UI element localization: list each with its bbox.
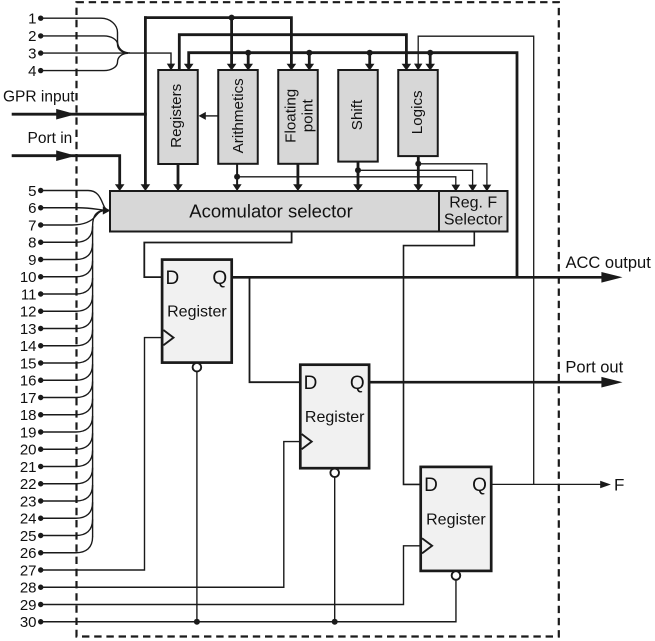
junction dot Shift output bbox=[355, 167, 361, 173]
arrowhead GPR trunk into Acomulator selector bbox=[141, 184, 151, 191]
node 16 terminal dot bbox=[38, 378, 43, 383]
wire pin10 to bus bbox=[41, 261, 93, 277]
svg-text:Registers: Registers bbox=[168, 83, 185, 148]
svg-text:10: 10 bbox=[20, 269, 37, 286]
svg-text:Port out: Port out bbox=[565, 359, 623, 377]
arrowhead into Registers right side bbox=[199, 112, 206, 120]
block Floating point bbox=[278, 70, 318, 164]
wire Q1 ACC output line bbox=[232, 276, 602, 279]
wire pin4 to bus bbox=[41, 53, 128, 70]
node 11 terminal dot bbox=[38, 291, 43, 296]
node 9 terminal dot bbox=[38, 257, 43, 262]
svg-text:27: 27 bbox=[20, 562, 37, 579]
junction dot Arithmetics output bbox=[234, 174, 240, 180]
node 27 terminal dot bbox=[38, 567, 43, 572]
node 5 terminal dot bbox=[38, 188, 43, 193]
wire Q3 to F bbox=[491, 483, 601, 485]
node 4 terminal dot bbox=[38, 68, 43, 73]
Port in arrow wire bbox=[12, 154, 62, 157]
node 21 terminal dot bbox=[38, 464, 43, 469]
junction dot wireA/Arithmetics bbox=[229, 15, 235, 21]
svg-text:Logics: Logics bbox=[409, 90, 426, 134]
wire pin19 to bus bbox=[41, 416, 93, 432]
node 23 terminal dot bbox=[38, 498, 43, 503]
node 2 terminal dot bbox=[38, 33, 43, 38]
svg-text:Register: Register bbox=[167, 304, 227, 321]
wire pin30 reset line bbox=[41, 580, 456, 622]
wire Arithmetics output to selector bbox=[236, 164, 238, 185]
node 25 terminal dot bbox=[38, 533, 43, 538]
node 12 terminal dot bbox=[38, 309, 43, 314]
wire pin3 merged bus to Registers input bbox=[41, 53, 171, 64]
svg-text:20: 20 bbox=[20, 442, 37, 459]
wire Acomulator selector output to Register1 D bbox=[144, 232, 291, 278]
svg-text:24: 24 bbox=[20, 511, 37, 528]
dashed border frame bbox=[77, 2, 559, 636]
arrowhead into Logics input3 bbox=[425, 64, 435, 71]
svg-text:3: 3 bbox=[28, 45, 36, 62]
wire Logics branch to Reg F selector bbox=[418, 164, 487, 186]
svg-text:25: 25 bbox=[20, 528, 37, 545]
node 14 terminal dot bbox=[38, 343, 43, 348]
svg-text:Arithmetics: Arithmetics bbox=[230, 78, 247, 154]
wire pin13 to bus bbox=[41, 313, 93, 329]
wire Arithmetics to Registers side arrow bbox=[203, 115, 218, 117]
node 1 terminal dot bbox=[38, 16, 43, 21]
svg-text:Floating: Floating bbox=[283, 89, 300, 143]
wire drop to Arithmetics input2 bbox=[247, 53, 250, 64]
junction dot wire3/Logics bbox=[427, 50, 433, 56]
block Shift bbox=[338, 70, 378, 162]
wire Arithmetics branch to Reg F selector bbox=[237, 177, 456, 186]
wire pin9 to bus bbox=[41, 244, 93, 260]
arrowhead bus1-4 into Registers bbox=[167, 64, 175, 71]
node 30 terminal dot bbox=[38, 619, 43, 624]
node 28 terminal dot bbox=[38, 585, 43, 590]
wire pin17 to bus bbox=[41, 382, 93, 398]
svg-text:Q: Q bbox=[350, 373, 365, 394]
wire pin18 to bus bbox=[41, 399, 93, 415]
clock triangle U2 bbox=[302, 434, 312, 449]
node 10 terminal dot bbox=[38, 274, 43, 279]
svg-text:Selector: Selector bbox=[444, 212, 503, 229]
svg-text:22: 22 bbox=[20, 476, 37, 493]
wire pin1 to bus bbox=[41, 18, 130, 53]
arrowhead Port in into Acomulator selector bbox=[115, 184, 125, 191]
register flip-flop U1 bbox=[162, 260, 232, 363]
svg-text:Shift: Shift bbox=[349, 99, 366, 130]
arrowhead into Shift input bbox=[365, 64, 375, 71]
svg-text:7: 7 bbox=[28, 217, 36, 234]
block Reg. F Selector U-REGF bbox=[439, 191, 508, 232]
junction dot wire3/Arithmetics bbox=[245, 50, 251, 56]
svg-text:19: 19 bbox=[20, 424, 37, 441]
wire pin6 to bus bbox=[41, 208, 104, 210]
svg-text:17: 17 bbox=[20, 390, 37, 407]
svg-text:Reg. F: Reg. F bbox=[449, 195, 497, 212]
wire pin22 to bus bbox=[41, 468, 93, 484]
svg-text:GPR input: GPR input bbox=[3, 89, 75, 106]
svg-text:D: D bbox=[424, 475, 438, 496]
svg-text:18: 18 bbox=[20, 407, 37, 424]
node 8 terminal dot bbox=[38, 240, 43, 245]
wire Shift branch to Reg F selector bbox=[358, 170, 473, 186]
node 15 terminal dot bbox=[38, 360, 43, 365]
wire pin24 to bus bbox=[41, 502, 93, 518]
wire Floating point output to selector bbox=[296, 164, 299, 185]
svg-text:26: 26 bbox=[20, 545, 37, 562]
wire Shift output to selector bbox=[357, 162, 360, 185]
svg-text:29: 29 bbox=[20, 597, 37, 614]
node 13 terminal dot bbox=[38, 326, 43, 331]
arrowhead wire3 into Registers bbox=[184, 64, 194, 71]
wire pin29 to Register3 clock bbox=[41, 546, 420, 605]
wire Q1 branch to Register2 D bbox=[250, 277, 300, 382]
clock triangle U1 bbox=[163, 330, 173, 345]
bus 5-26 vertical bbox=[93, 211, 105, 537]
wire drop to Floating point input2 bbox=[308, 53, 311, 64]
svg-text:Q: Q bbox=[472, 475, 487, 496]
junction dot reset/reg1 bbox=[194, 619, 200, 625]
svg-text:Port in: Port in bbox=[28, 130, 73, 147]
node 20 terminal dot bbox=[38, 447, 43, 452]
arrowhead into Floating point input2 bbox=[305, 64, 315, 71]
svg-text:D: D bbox=[304, 373, 318, 394]
svg-text:23: 23 bbox=[20, 493, 37, 510]
node 22 terminal dot bbox=[38, 481, 43, 486]
arrowhead wire2 into Logics bbox=[402, 64, 412, 71]
svg-text:28: 28 bbox=[20, 580, 37, 597]
wire pin28 to Register2 clock bbox=[41, 442, 299, 588]
node 24 terminal dot bbox=[38, 516, 43, 521]
wire pin16 to bus bbox=[41, 364, 93, 380]
wire Logics output to selector bbox=[417, 156, 420, 184]
node 3 terminal dot bbox=[38, 50, 43, 55]
svg-text:15: 15 bbox=[20, 355, 37, 372]
wire Q2 Port out line bbox=[369, 381, 602, 384]
svg-text:2: 2 bbox=[28, 28, 36, 45]
wire pin8 to bus bbox=[41, 226, 93, 242]
svg-text:1: 1 bbox=[28, 11, 36, 28]
reset bubble U1 bbox=[193, 363, 202, 372]
wire bus A top (GPR distribution) bbox=[144, 18, 291, 64]
wire pin27 to Register1 clock bbox=[41, 338, 161, 570]
GPR input arrow wire bbox=[12, 113, 62, 116]
arrowhead F feedback into Logics bbox=[414, 64, 422, 71]
arrowhead into Arithmetics input2 bbox=[243, 64, 253, 71]
clock triangle U3 bbox=[422, 538, 432, 553]
wire pin25 to bus bbox=[41, 520, 93, 536]
junction dot Logics output bbox=[415, 161, 421, 167]
svg-text:6: 6 bbox=[28, 200, 36, 217]
Port out arrowhead bbox=[601, 377, 622, 388]
register flip-flop U3 bbox=[421, 467, 492, 571]
wire ACC feedback (wire3) across tops bbox=[189, 53, 517, 278]
ACC output arrowhead bbox=[601, 272, 622, 283]
arrowhead bus into Acomulator selector bbox=[103, 206, 111, 214]
wire pin15 to bus bbox=[41, 347, 93, 363]
wire pin12 to bus bbox=[41, 295, 93, 311]
node 19 terminal dot bbox=[38, 429, 43, 434]
svg-text:Register: Register bbox=[305, 409, 365, 426]
wire drop to Logics input3 bbox=[429, 53, 432, 64]
svg-text:13: 13 bbox=[20, 321, 37, 338]
node 26 terminal dot bbox=[38, 550, 43, 555]
svg-text:12: 12 bbox=[20, 304, 37, 321]
arrowhead into Floating point input1 bbox=[287, 64, 297, 71]
wire drop to Arithmetics input1 bbox=[230, 18, 233, 64]
Port in arrowhead bbox=[56, 150, 75, 161]
block Arithmetics bbox=[218, 70, 258, 164]
wire Reg F selector output to Register3 D bbox=[404, 232, 475, 485]
svg-text:F: F bbox=[614, 476, 624, 495]
svg-text:11: 11 bbox=[21, 286, 37, 303]
wire drop to Shift input bbox=[368, 53, 371, 64]
node 6 terminal dot bbox=[38, 205, 43, 210]
wire pin21 to bus bbox=[41, 451, 93, 467]
node 18 terminal dot bbox=[38, 412, 43, 417]
svg-text:Q: Q bbox=[212, 268, 227, 289]
wire pin20 to bus bbox=[41, 433, 93, 449]
svg-text:30: 30 bbox=[20, 614, 37, 631]
block Registers bbox=[158, 70, 198, 164]
junction dot wire3/Floating point bbox=[306, 50, 312, 56]
wire pin7 to bus bbox=[41, 211, 105, 226]
wire reset to Register1 bubble bbox=[196, 372, 198, 622]
register flip-flop U2 bbox=[300, 365, 369, 469]
node 29 terminal dot bbox=[38, 602, 43, 607]
svg-text:Register: Register bbox=[426, 511, 486, 528]
GPR input arrowhead bbox=[56, 109, 75, 120]
wire pin2 to bus bbox=[41, 36, 128, 53]
wire pin23 to bus bbox=[41, 485, 93, 501]
svg-text:D: D bbox=[166, 268, 180, 289]
svg-text:21: 21 bbox=[20, 459, 37, 476]
node 7 terminal dot bbox=[38, 222, 43, 227]
svg-text:16: 16 bbox=[20, 373, 37, 390]
svg-text:point: point bbox=[300, 99, 317, 133]
junction dot wire3/Shift bbox=[367, 50, 373, 56]
reset bubble U3 bbox=[452, 571, 461, 580]
node 17 terminal dot bbox=[38, 395, 43, 400]
svg-text:8: 8 bbox=[28, 235, 36, 252]
arrowhead into Arithmetics input1 bbox=[227, 64, 237, 71]
reset bubble U2 bbox=[330, 469, 339, 478]
block Logics bbox=[398, 70, 438, 156]
svg-text:4: 4 bbox=[28, 63, 36, 80]
svg-text:9: 9 bbox=[28, 252, 36, 269]
wire reset to Register2 bubble bbox=[334, 477, 336, 622]
svg-text:14: 14 bbox=[20, 338, 37, 355]
wire pin5 to bus bbox=[41, 191, 109, 211]
wire pin14 to bus bbox=[41, 330, 93, 346]
svg-text:ACC output: ACC output bbox=[566, 254, 652, 272]
wire GPR vertical trunk bbox=[144, 16, 147, 184]
wire Registers top feed (wire2) to Logics bbox=[179, 35, 406, 71]
svg-text:Acomulator selector: Acomulator selector bbox=[189, 201, 352, 222]
svg-text:5: 5 bbox=[28, 183, 36, 200]
junction dot reset/reg2 bbox=[332, 619, 338, 625]
wire F feedback thin into Logics bbox=[418, 36, 534, 484]
wire pin11 to bus bbox=[41, 278, 93, 294]
wire Registers output to selector bbox=[177, 163, 180, 184]
wire pin26 to bus bbox=[41, 537, 93, 553]
block Acomulator selector U-ACC bbox=[110, 191, 439, 232]
F arrowhead bbox=[600, 481, 611, 488]
